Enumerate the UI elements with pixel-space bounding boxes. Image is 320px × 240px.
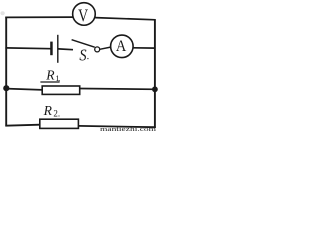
wire battery row left — [5, 47, 50, 50]
wire bottom right segment — [78, 126, 155, 127]
junction node right — [152, 86, 158, 92]
wire switch to ammeter — [100, 47, 111, 49]
wire ammeter to right — [133, 47, 155, 49]
voltmeter V — [73, 3, 96, 26]
ammeter A — [111, 35, 134, 58]
battery positive plate (long thin) — [57, 35, 59, 63]
wire top left segment — [5, 16, 73, 18]
watermark speck top-left — [0, 11, 4, 15]
label R1 underline — [40, 81, 59, 83]
svg-text:mantiezhi.com: mantiezhi.com — [100, 126, 156, 132]
wire left vertical — [5, 17, 7, 127]
wire battery to switch — [58, 48, 73, 51]
wire bottom left segment — [5, 125, 40, 126]
wire top right segment — [95, 18, 155, 20]
switch contact circle — [95, 47, 100, 52]
resistor R1 box — [42, 86, 79, 94]
svg-text:A: A — [116, 38, 127, 55]
wire R1 left — [6, 89, 42, 90]
svg-text:R: R — [45, 68, 55, 83]
battery negative plate (short thick) — [50, 42, 53, 56]
wire right vertical — [154, 19, 156, 128]
svg-text:S: S — [79, 45, 86, 64]
label R1 period — [59, 80, 60, 81]
label R2 period — [58, 115, 59, 116]
svg-text:V: V — [78, 5, 88, 25]
svg-text:R: R — [43, 103, 53, 118]
svg-text:2: 2 — [53, 109, 58, 119]
resistor R2 box — [40, 119, 79, 128]
wire R1 right — [80, 88, 156, 91]
switch S lever — [72, 40, 95, 48]
label S period — [87, 58, 88, 59]
junction node left — [3, 85, 9, 91]
